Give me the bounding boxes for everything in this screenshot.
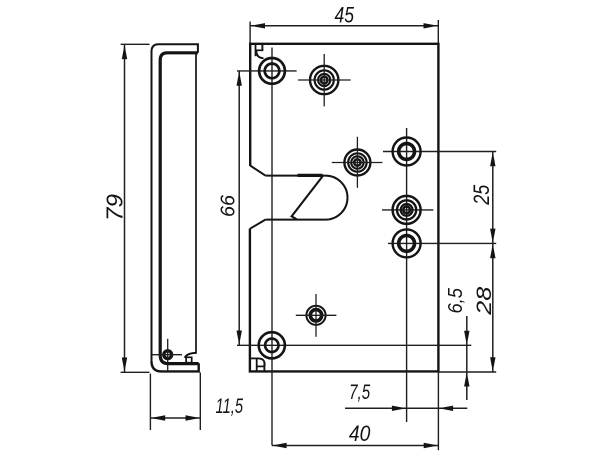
hole F crosshair [152,339,182,371]
hole C (middle countersunk) [344,150,370,176]
centerline hole 3 row / 25-28 extension [388,242,496,244]
extension line right edge down [437,372,439,450]
centerline through holes A and E [271,48,273,446]
svg-text:11,5: 11,5 [216,395,244,418]
extension line bottom edge right [439,371,497,373]
dimension 25 arrows [490,152,495,167]
dimension 66 (hole span) [217,71,242,345]
svg-text:66: 66 [217,194,240,217]
slot thick edge segment [298,174,323,177]
svg-text:40: 40 [349,421,371,446]
dimension 45 (top width) [250,3,438,43]
centerline hole 1 row / 25 top extension [383,151,496,153]
dimension 40 [272,421,439,448]
hole 3 (right column bottom) [393,229,421,257]
hole D (small bottom-center) [306,306,325,325]
hole 2 (right column middle countersunk) [393,196,421,224]
centerline right hole column [406,128,408,422]
hole B (top countersunk) [310,66,338,94]
svg-text:45: 45 [335,3,355,28]
hole D crosshair [296,294,337,337]
dimension 25 / 28 shared line [469,152,496,373]
dimension 11,5 [150,373,243,431]
hole B crosshair [298,54,351,106]
svg-text:25: 25 [469,184,494,205]
hole C crosshair [332,137,383,188]
dimension 79 (side height) [101,44,149,372]
side view inner bent-sheet line [160,53,199,364]
dimension 28 arrows [490,244,495,259]
front view plate outline [250,44,439,372]
corner tab detail G (side view bottom-right) [185,353,196,363]
svg-text:28: 28 [472,287,496,316]
hole 1 (right column top) [393,138,421,166]
latch diagonal edge [292,176,323,220]
corner tab detail (front top-left) [256,44,264,58]
side view bottom contour [152,361,199,371]
centerline hole A row / 66 top extension [237,70,297,72]
svg-text:7,5: 7,5 [349,381,370,404]
latch slot outline [265,176,347,220]
side view outer contour [152,44,199,371]
centerline hole 2 row [382,209,433,211]
centerline hole E row / 6.5 extension [237,344,471,346]
hole E (bottom-left plain) [259,332,285,358]
svg-text:79: 79 [101,194,127,221]
hole A (top-left plain) [259,58,285,84]
svg-text:6,5: 6,5 [444,288,467,314]
slot entry chamfer bottom [250,220,266,229]
corner tab detail (front bottom-left) [250,358,265,371]
dimension 6,5 [444,288,470,400]
slot entry chamfer top [250,166,265,176]
rivet hole F (side view) [164,351,172,359]
dimension 7,5 [345,381,467,411]
side view body right edge [195,53,197,354]
